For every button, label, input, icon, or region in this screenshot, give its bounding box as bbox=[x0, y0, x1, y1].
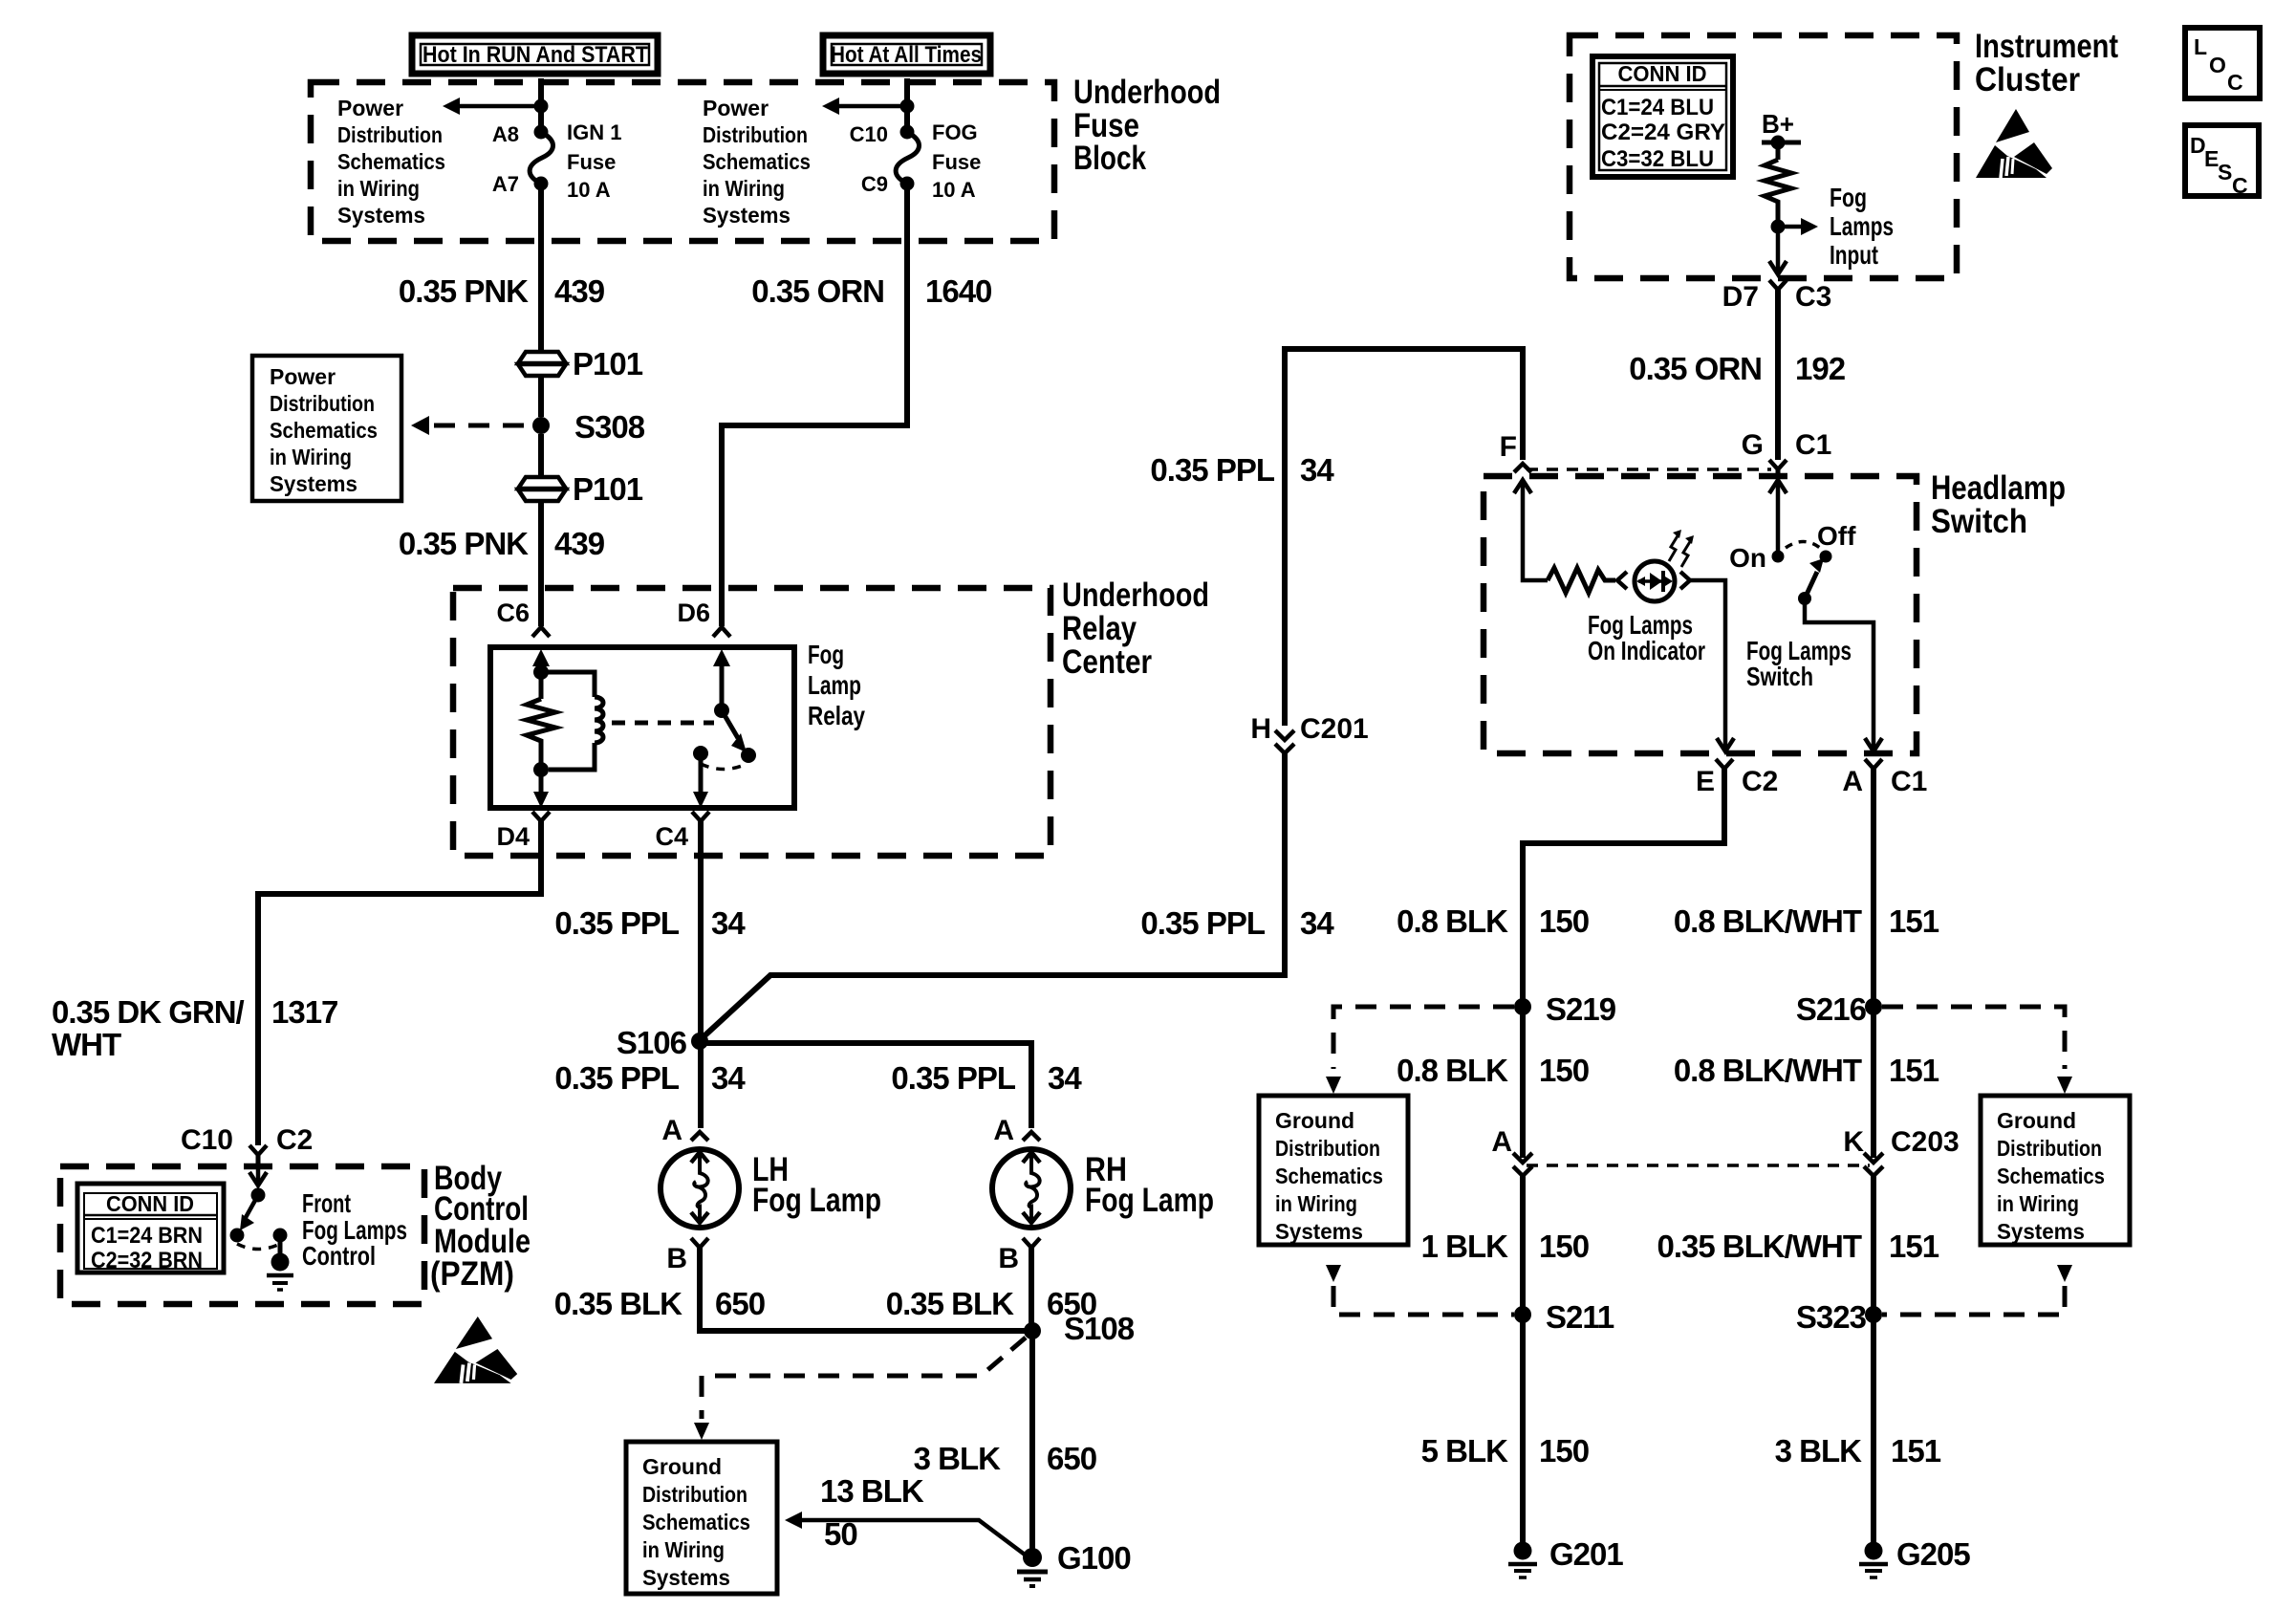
svg-text:C1=24 BLU: C1=24 BLU bbox=[1601, 95, 1714, 120]
svg-text:in Wiring: in Wiring bbox=[642, 1537, 725, 1562]
svg-text:650: 650 bbox=[715, 1286, 765, 1321]
svg-text:S219: S219 bbox=[1546, 991, 1616, 1027]
svg-text:Schematics: Schematics bbox=[703, 149, 811, 174]
svg-text:A: A bbox=[993, 1115, 1014, 1146]
svg-text:in Wiring: in Wiring bbox=[1275, 1191, 1357, 1216]
svg-text:0.35 DK GRN/: 0.35 DK GRN/ bbox=[52, 994, 245, 1030]
svg-text:D4: D4 bbox=[496, 822, 530, 851]
svg-text:Ground: Ground bbox=[1997, 1108, 2076, 1133]
svg-text:34: 34 bbox=[1300, 452, 1334, 488]
svg-text:34: 34 bbox=[711, 1060, 746, 1096]
svg-text:Systems: Systems bbox=[703, 203, 791, 228]
svg-text:C4: C4 bbox=[655, 822, 688, 851]
svg-text:Fog: Fog bbox=[808, 640, 844, 669]
svg-text:G: G bbox=[1742, 429, 1764, 461]
svg-text:C3=32 BLU: C3=32 BLU bbox=[1601, 146, 1714, 172]
svg-text:13 BLK: 13 BLK bbox=[820, 1473, 924, 1509]
svg-text:Block: Block bbox=[1073, 140, 1146, 177]
svg-text:D6: D6 bbox=[677, 598, 710, 627]
svg-text:C3: C3 bbox=[1795, 281, 1831, 313]
svg-text:Instrument: Instrument bbox=[1975, 28, 2118, 65]
svg-text:Relay: Relay bbox=[808, 701, 865, 730]
svg-text:Cluster: Cluster bbox=[1975, 61, 2080, 98]
svg-text:1317: 1317 bbox=[271, 994, 337, 1030]
svg-text:34: 34 bbox=[1048, 1060, 1082, 1096]
svg-text:(PZM): (PZM) bbox=[430, 1255, 514, 1293]
svg-text:Fog: Fog bbox=[1830, 183, 1867, 212]
svg-text:Fuse: Fuse bbox=[567, 150, 616, 174]
svg-text:B: B bbox=[998, 1243, 1019, 1274]
svg-text:B: B bbox=[666, 1243, 687, 1274]
svg-text:C201: C201 bbox=[1300, 713, 1369, 745]
svg-text:in Wiring: in Wiring bbox=[337, 176, 420, 201]
svg-text:Lamp: Lamp bbox=[808, 670, 861, 700]
svg-text:0.35 PNK: 0.35 PNK bbox=[399, 526, 529, 561]
svg-text:0.35 PPL: 0.35 PPL bbox=[554, 1060, 679, 1096]
svg-text:0.35 PPL: 0.35 PPL bbox=[554, 905, 679, 941]
svg-text:151: 151 bbox=[1891, 1433, 1941, 1469]
svg-text:Schematics: Schematics bbox=[1997, 1164, 2105, 1188]
svg-text:Systems: Systems bbox=[642, 1565, 730, 1590]
svg-text:in Wiring: in Wiring bbox=[703, 176, 785, 201]
svg-text:150: 150 bbox=[1539, 1053, 1589, 1088]
svg-text:Schematics: Schematics bbox=[1275, 1164, 1383, 1188]
svg-text:G100: G100 bbox=[1057, 1540, 1131, 1576]
svg-text:Switch: Switch bbox=[1746, 662, 1813, 691]
svg-text:0.35 PPL: 0.35 PPL bbox=[1150, 452, 1274, 488]
svg-text:Switch: Switch bbox=[1931, 503, 2027, 540]
svg-text:S106: S106 bbox=[617, 1025, 687, 1060]
svg-text:C1: C1 bbox=[1891, 766, 1927, 797]
svg-text:Systems: Systems bbox=[1997, 1219, 2085, 1244]
svg-text:0.35 BLK: 0.35 BLK bbox=[554, 1286, 682, 1321]
svg-text:Input: Input bbox=[1830, 240, 1878, 270]
svg-text:192: 192 bbox=[1795, 351, 1846, 386]
svg-text:C10: C10 bbox=[850, 122, 888, 146]
svg-text:F: F bbox=[1500, 431, 1517, 463]
svg-text:Schematics: Schematics bbox=[642, 1510, 750, 1534]
svg-text:0.35 ORN: 0.35 ORN bbox=[751, 273, 884, 309]
svg-text:C: C bbox=[2232, 173, 2248, 198]
svg-text:CONN ID: CONN ID bbox=[106, 1191, 194, 1216]
svg-text:34: 34 bbox=[1300, 905, 1334, 941]
svg-text:150: 150 bbox=[1539, 903, 1589, 939]
svg-text:S323: S323 bbox=[1796, 1299, 1867, 1335]
svg-text:S308: S308 bbox=[574, 409, 645, 445]
svg-text:in Wiring: in Wiring bbox=[270, 445, 352, 469]
svg-text:10 A: 10 A bbox=[567, 178, 611, 202]
svg-text:10 A: 10 A bbox=[932, 178, 976, 202]
svg-text:C1=24 BRN: C1=24 BRN bbox=[91, 1223, 203, 1249]
svg-text:C203: C203 bbox=[1891, 1126, 1960, 1158]
svg-text:C2: C2 bbox=[1742, 766, 1778, 797]
svg-text:Ground: Ground bbox=[1275, 1108, 1354, 1133]
svg-text:150: 150 bbox=[1539, 1229, 1589, 1264]
svg-text:Distribution: Distribution bbox=[703, 122, 808, 147]
svg-text:O: O bbox=[2209, 53, 2226, 77]
svg-text:Headlamp: Headlamp bbox=[1931, 469, 2066, 507]
svg-text:E: E bbox=[1696, 766, 1715, 797]
svg-text:Systems: Systems bbox=[1275, 1219, 1363, 1244]
svg-text:50: 50 bbox=[824, 1516, 857, 1552]
svg-text:D7: D7 bbox=[1722, 281, 1759, 313]
svg-text:0.8 BLK: 0.8 BLK bbox=[1397, 903, 1508, 939]
svg-text:3 BLK: 3 BLK bbox=[914, 1441, 1002, 1476]
svg-text:S211: S211 bbox=[1546, 1299, 1614, 1335]
svg-text:Ground: Ground bbox=[642, 1454, 722, 1479]
svg-text:Underhood: Underhood bbox=[1073, 74, 1221, 111]
svg-text:439: 439 bbox=[554, 526, 605, 561]
svg-text:0.35 BLK: 0.35 BLK bbox=[886, 1286, 1014, 1321]
svg-text:L: L bbox=[2194, 34, 2207, 59]
svg-text:3 BLK: 3 BLK bbox=[1775, 1433, 1863, 1469]
svg-text:C9: C9 bbox=[861, 172, 888, 196]
svg-text:Front: Front bbox=[302, 1188, 351, 1218]
svg-text:A: A bbox=[1491, 1126, 1512, 1158]
svg-text:S216: S216 bbox=[1796, 991, 1867, 1027]
svg-text:On: On bbox=[1729, 543, 1766, 573]
svg-text:A7: A7 bbox=[492, 172, 519, 196]
svg-text:0.35 PNK: 0.35 PNK bbox=[399, 273, 529, 309]
svg-text:C2: C2 bbox=[276, 1124, 313, 1156]
svg-text:150: 150 bbox=[1539, 1433, 1589, 1469]
svg-text:Relay: Relay bbox=[1062, 610, 1137, 647]
svg-text:C6: C6 bbox=[496, 598, 530, 627]
svg-text:Lamps: Lamps bbox=[1830, 211, 1894, 241]
svg-text:IGN 1: IGN 1 bbox=[567, 120, 621, 144]
svg-text:Systems: Systems bbox=[337, 203, 425, 228]
svg-text:Fog Lamp: Fog Lamp bbox=[1085, 1182, 1214, 1219]
svg-text:C2=24 GRY: C2=24 GRY bbox=[1601, 120, 1725, 145]
svg-text:0.35 PPL: 0.35 PPL bbox=[1140, 905, 1265, 941]
svg-text:Underhood: Underhood bbox=[1062, 577, 1209, 614]
svg-text:P101: P101 bbox=[573, 471, 643, 507]
svg-text:Schematics: Schematics bbox=[270, 418, 378, 443]
svg-text:Distribution: Distribution bbox=[642, 1482, 747, 1507]
svg-text:34: 34 bbox=[711, 905, 746, 941]
svg-text:H: H bbox=[1250, 713, 1271, 745]
svg-text:FOG: FOG bbox=[932, 120, 978, 144]
svg-text:Distribution: Distribution bbox=[1997, 1136, 2102, 1161]
svg-text:On Indicator: On Indicator bbox=[1588, 636, 1705, 665]
svg-text:A: A bbox=[1842, 766, 1863, 797]
svg-text:0.35 BLK/WHT: 0.35 BLK/WHT bbox=[1657, 1229, 1861, 1264]
svg-text:G205: G205 bbox=[1896, 1536, 1970, 1572]
svg-text:C10: C10 bbox=[181, 1124, 233, 1156]
svg-text:Schematics: Schematics bbox=[337, 149, 445, 174]
svg-text:S: S bbox=[2218, 160, 2232, 185]
svg-text:0.8 BLK: 0.8 BLK bbox=[1397, 1053, 1508, 1088]
svg-text:5 BLK: 5 BLK bbox=[1421, 1433, 1509, 1469]
svg-text:C: C bbox=[2227, 70, 2243, 95]
svg-text:Hot In RUN And START: Hot In RUN And START bbox=[422, 42, 648, 68]
svg-text:Control: Control bbox=[302, 1241, 376, 1271]
svg-text:K: K bbox=[1843, 1126, 1864, 1158]
svg-text:Power: Power bbox=[337, 96, 403, 120]
svg-text:P101: P101 bbox=[573, 346, 643, 381]
svg-text:A: A bbox=[661, 1115, 682, 1146]
svg-text:1 BLK: 1 BLK bbox=[1421, 1229, 1509, 1264]
svg-text:Hot At All Times: Hot At All Times bbox=[831, 42, 982, 68]
svg-text:0.35 PPL: 0.35 PPL bbox=[891, 1060, 1015, 1096]
svg-text:439: 439 bbox=[554, 273, 605, 309]
svg-text:Distribution: Distribution bbox=[270, 391, 375, 416]
svg-text:S108: S108 bbox=[1064, 1311, 1135, 1346]
svg-text:WHT: WHT bbox=[52, 1027, 121, 1062]
svg-text:Power: Power bbox=[270, 364, 336, 389]
svg-text:Fuse: Fuse bbox=[932, 150, 981, 174]
svg-text:in Wiring: in Wiring bbox=[1997, 1191, 2079, 1216]
svg-text:0.8 BLK/WHT: 0.8 BLK/WHT bbox=[1674, 903, 1862, 939]
svg-text:1640: 1640 bbox=[925, 273, 991, 309]
svg-text:C2=32 BRN: C2=32 BRN bbox=[91, 1248, 203, 1273]
svg-text:650: 650 bbox=[1047, 1441, 1096, 1476]
svg-text:A8: A8 bbox=[492, 122, 519, 146]
svg-text:Systems: Systems bbox=[270, 471, 357, 496]
svg-text:151: 151 bbox=[1889, 1053, 1939, 1088]
svg-text:Off: Off bbox=[1817, 521, 1856, 551]
svg-text:Center: Center bbox=[1062, 643, 1152, 681]
svg-text:Power: Power bbox=[703, 96, 769, 120]
svg-text:Fog Lamp: Fog Lamp bbox=[752, 1182, 881, 1219]
svg-text:Distribution: Distribution bbox=[337, 122, 443, 147]
svg-text:G201: G201 bbox=[1549, 1536, 1623, 1572]
svg-text:CONN ID: CONN ID bbox=[1618, 61, 1707, 86]
svg-text:Distribution: Distribution bbox=[1275, 1136, 1380, 1161]
svg-text:B+: B+ bbox=[1762, 109, 1794, 139]
svg-text:0.35 ORN: 0.35 ORN bbox=[1629, 351, 1762, 386]
svg-text:151: 151 bbox=[1889, 1229, 1939, 1264]
svg-text:C1: C1 bbox=[1795, 429, 1831, 461]
svg-text:151: 151 bbox=[1889, 903, 1939, 939]
svg-text:0.8 BLK/WHT: 0.8 BLK/WHT bbox=[1674, 1053, 1862, 1088]
